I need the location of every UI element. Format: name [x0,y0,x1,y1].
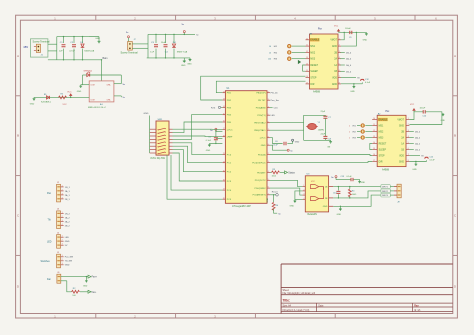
svg-text:Pan_SW: Pan_SW [65,257,73,259]
svg-text:PB7(XTAL2: PB7(XTAL2 [254,122,266,125]
svg-text:2: 2 [268,91,269,93]
svg-text:Screw Terminal: Screw Terminal [121,52,138,55]
svg-text:RESET: RESET [379,143,387,145]
svg-text:PC3(O5/Pwm: PC3(O5/Pwm [252,162,266,164]
svg-text:2A: 2A [334,58,337,61]
svg-text:SM4T22A: SM4T22A [84,50,94,53]
svg-text:C: C [17,214,19,218]
svg-text:28: 28 [223,198,225,200]
svg-text:Title:: Title: [283,298,291,302]
svg-text:7: 7 [408,154,409,156]
svg-text:16: 16 [373,154,375,156]
svg-text:DRV2: DRV2 [382,191,389,193]
svg-text:3: 3 [62,263,63,265]
svg-text:1B: 1B [401,149,404,151]
svg-text:DRV1: DRV1 [382,187,389,189]
svg-text:LED: LED [271,115,276,117]
svg-text:MS3: MS3 [379,137,384,139]
svg-text:15: 15 [306,70,308,72]
svg-text:2: 2 [268,153,269,155]
svg-text:PB0(ICP): PB0(ICP) [256,93,266,95]
svg-text:ENABLE: ENABLE [310,39,320,42]
svg-text:1B_4: 1B_4 [346,71,352,73]
svg-text:PD1(2L/TX: PD1(2L/TX [255,180,266,182]
svg-text:MS3: MS3 [310,59,315,61]
svg-text:11: 11 [306,45,308,47]
svg-text:MS2: MS2 [379,131,384,133]
svg-text:1: 1 [62,212,63,214]
svg-text:COM: COM [90,99,95,101]
svg-text:GND: GND [65,265,70,267]
svg-text:2A_4: 2A_4 [346,58,352,61]
svg-text:4: 4 [339,57,340,59]
svg-text:1uF: 1uF [150,52,154,54]
svg-text:12: 12 [306,51,308,53]
svg-text:3: 3 [62,220,63,222]
svg-text:Pan: Pan [47,193,52,195]
svg-text:A: A [17,54,19,58]
svg-text:3: 3 [62,244,63,246]
svg-text:17: 17 [306,82,308,84]
svg-text:J5: J5 [269,52,271,54]
svg-text:aVCC: aVCC [260,138,266,140]
svg-text:13: 13 [373,136,375,138]
svg-text:2B: 2B [334,52,337,54]
svg-text:16: 16 [306,76,308,78]
svg-text:PD4(2A: PD4(2A [258,153,266,156]
svg-text:D: D [454,285,456,289]
svg-text:MS1: MS1 [379,125,384,127]
svg-text:GND: GND [399,161,404,163]
svg-text:10: 10 [373,118,375,120]
svg-text:COM: COM [90,84,95,86]
svg-text:25: 25 [223,170,225,172]
svg-text:GND: GND [30,104,35,106]
svg-text:GND: GND [181,65,186,67]
svg-text:6: 6 [408,148,409,150]
svg-text:C14: C14 [333,192,336,194]
svg-text:0.1uF: 0.1uF [273,145,279,147]
svg-text:2: 2 [339,45,340,47]
svg-text:SLEEP: SLEEP [310,71,318,73]
svg-text:15: 15 [373,148,375,150]
svg-text:Sheet:: Sheet: [283,289,290,292]
svg-text:100uF: 100uF [345,28,351,30]
svg-text:1A_2: 1A_2 [65,216,71,219]
svg-text:D: D [17,285,19,289]
svg-text:0.1uF: 0.1uF [206,140,212,142]
svg-text:2: 2 [62,216,63,218]
svg-text:2B_2: 2B_2 [65,225,71,227]
svg-text:A: A [454,54,456,58]
svg-text:18: 18 [223,135,225,137]
svg-text:3: 3 [339,51,340,53]
svg-text:GND: GND [206,150,211,152]
svg-text:VCC: VCC [311,181,316,183]
svg-text:0.1uF: 0.1uF [365,82,371,84]
svg-text:24: 24 [223,161,225,163]
svg-text:PD5(T1): PD5(T1) [257,115,266,117]
svg-text:C: C [454,214,456,218]
svg-text:3: 3 [408,130,409,132]
svg-text:Screw Terminal: Screw Terminal [33,41,50,44]
svg-text:GND: GND [261,145,266,147]
svg-text:1: 1 [349,137,350,139]
svg-text:1: 1 [349,125,350,127]
svg-text:1: 1 [62,185,63,187]
svg-text:22pF: 22pF [321,111,326,113]
svg-text:2B: 2B [401,131,404,133]
svg-text:23: 23 [223,153,225,155]
svg-text:GND: GND [399,125,404,127]
svg-text:GND: GND [83,285,88,287]
svg-text:SM6T7.0A: SM6T7.0A [177,51,188,54]
svg-text:2B_1: 2B_1 [65,199,71,201]
svg-text:1B_2: 1B_2 [415,150,421,152]
svg-text:8: 8 [408,160,409,162]
svg-text:GND: GND [323,206,328,208]
svg-text:LED: LED [47,241,52,243]
svg-text:6: 6 [268,187,269,189]
svg-text:K205BW-L: K205BW-L [41,102,52,104]
svg-text:1N_2: 1N_2 [65,213,71,215]
svg-text:GND: GND [361,182,366,184]
svg-text:VDD: VDD [399,155,404,157]
svg-text:GND: GND [144,113,149,115]
svg-text:RESET: RESET [310,65,318,67]
svg-text:Size: A4: Size: A4 [283,304,292,307]
svg-text:16: 16 [223,121,225,123]
svg-text:15V: 15V [23,45,28,49]
svg-text:5v: 5v [290,151,292,153]
svg-text:1N_1: 1N_1 [65,187,71,189]
svg-text:PD3(INT: PD3(INT [257,172,266,174]
svg-text:B: B [454,134,456,138]
svg-text:GND: GND [363,40,368,42]
svg-text:6: 6 [339,70,340,72]
svg-text:8-Pin Dip SW: 8-Pin Dip SW [151,157,166,160]
svg-text:4: 4 [62,197,63,199]
svg-text:aVCC: aVCC [227,129,233,131]
svg-text:2A_2: 2A_2 [65,220,71,223]
svg-text:GND: GND [337,214,342,216]
svg-text:Phl_Dn: Phl_Dn [271,93,279,95]
svg-text:7: 7 [339,76,340,78]
svg-text:22pF: 22pF [321,133,326,135]
svg-text:GND: GND [187,63,192,65]
svg-text:12: 12 [373,130,375,132]
svg-text:Status: Status [288,172,295,175]
svg-text:6: 6 [268,121,269,123]
svg-text:A4988: A4988 [382,169,390,172]
svg-text:GND: GND [412,169,417,171]
svg-text:27: 27 [223,189,225,191]
svg-text:9: 9 [268,144,269,146]
svg-text:0.1uF: 0.1uF [347,176,353,178]
svg-text:C9: C9 [349,37,351,39]
svg-text:PB TST: PB TST [258,100,266,102]
svg-text:8: 8 [339,82,340,84]
svg-text:Fan-: Fan- [92,292,97,294]
svg-text:17: 17 [223,128,225,130]
svg-text:3: 3 [268,161,269,163]
svg-text:File: Movingright_v10.kicad_sc: File: Movingright_v10.kicad_sch [283,292,316,295]
svg-text:GND: GND [441,120,446,122]
svg-text:GND: GND [267,197,269,202]
svg-text:STEP: STEP [310,78,316,80]
svg-text:1: 1 [408,118,409,120]
svg-text:5: 5 [268,179,269,181]
svg-text:7: 7 [268,129,269,131]
svg-text:1A: 1A [334,64,337,67]
svg-text:GND: GND [332,84,337,86]
svg-text:4: 4 [268,106,269,108]
svg-text:1B: 1B [334,71,337,73]
svg-text:1uF: 1uF [59,51,63,53]
svg-text:1A_1: 1A_1 [65,190,71,193]
svg-text:A4988: A4988 [313,91,321,94]
svg-text:1A_4: 1A_4 [346,64,352,67]
svg-text:8: 8 [268,136,269,138]
svg-text:1: 1 [62,236,63,238]
svg-text:1A_2: 1A_2 [415,143,421,146]
svg-text:GND: GND [65,241,70,243]
svg-text:1A: 1A [401,142,404,145]
svg-text:3: 3 [62,193,63,195]
svg-text:R.St: R.St [211,107,216,110]
svg-text:GND: GND [332,46,337,48]
svg-text:4: 4 [62,224,63,226]
svg-text:11: 11 [373,124,375,126]
svg-text:3: 3 [268,99,269,101]
svg-text:PB6(XTAL1: PB6(XTAL1 [254,129,266,132]
svg-text:26: 26 [223,180,225,182]
svg-text:ENABLE: ENABLE [379,118,389,121]
svg-text:12: 12 [223,91,225,93]
svg-text:5: 5 [339,64,340,66]
svg-text:16MHz: 16MHz [318,130,324,132]
svg-text:GND: GND [290,205,295,207]
svg-text:SLEEP: SLEEP [379,149,387,151]
svg-text:14: 14 [223,106,225,108]
svg-text:MRD-05V0C-SL-C: MRD-05V0C-SL-C [88,107,107,109]
svg-text:PD0(26/RX: PD0(26/RX [255,188,267,190]
svg-text:13: 13 [223,99,225,101]
svg-text:Tilt_SW: Tilt_SW [65,260,72,263]
svg-text:15: 15 [223,113,225,115]
svg-text:5: 5 [268,114,269,116]
svg-text:STEP: STEP [379,155,385,157]
svg-text:Tilt: Tilt [48,219,51,222]
svg-text:100uF: 100uF [420,108,426,110]
svg-text:13: 13 [306,57,308,59]
svg-text:VCC: VCC [410,104,415,106]
svg-text:MS2: MS2 [310,52,315,54]
svg-text:1: 1 [349,131,350,133]
svg-text:7: 7 [268,193,269,195]
svg-text:SW1: SW1 [158,119,164,121]
svg-text:2A_1: 2A_1 [65,194,71,197]
svg-text:PD6(AIN0: PD6(AIN0 [256,107,267,110]
svg-text:2: 2 [408,124,409,126]
svg-text:VMOT: VMOT [330,40,337,42]
svg-text:2: 2 [62,259,63,261]
svg-text:Batn: Batn [103,57,109,60]
svg-text:Switches: Switches [41,260,51,263]
svg-text:DIR: DIR [310,84,314,86]
svg-text:5v: 5v [123,97,125,99]
svg-text:GND: GND [95,38,100,40]
svg-text:LED: LED [65,237,70,239]
svg-text:Pan_Sw: Pan_Sw [271,100,280,102]
svg-text:GND: GND [350,91,355,93]
svg-text:2: 2 [62,189,63,191]
svg-text:DRV3: DRV3 [382,195,389,197]
svg-text:2B_4: 2B_4 [346,52,352,54]
svg-text:14: 14 [373,142,375,144]
svg-text:Id: 1/1: Id: 1/1 [414,310,421,312]
svg-text:VMOT: VMOT [397,119,404,121]
svg-text:VCC: VCC [67,92,72,94]
svg-text:17: 17 [373,160,375,162]
svg-text:4: 4 [268,171,269,173]
svg-text:J10: J10 [268,59,271,61]
svg-text:VCC: VCC [334,26,339,28]
svg-text:2: 2 [62,240,63,242]
svg-text:14: 14 [306,64,308,66]
svg-text:aREF: aREF [227,137,233,139]
svg-text:5: 5 [408,142,409,144]
svg-text:Reset: Reset [272,190,278,193]
svg-text:DIR: DIR [379,161,383,163]
svg-text:1: 1 [62,255,63,257]
svg-text:VDD: VDD [332,78,337,80]
svg-text:Relais4N: Relais4N [308,214,318,216]
svg-text:2A_2: 2A_2 [415,137,421,140]
svg-text:PC6(RESET): PC6(RESET) [253,195,266,197]
svg-text:2A: 2A [401,136,404,139]
svg-text:4.7uF: 4.7uF [69,51,75,53]
svg-text:1: 1 [339,38,340,40]
svg-text:4: 4 [408,136,409,138]
svg-text:10uF: 10uF [161,42,167,44]
svg-text:0.1uF: 0.1uF [430,160,436,162]
svg-text:MS1: MS1 [310,46,315,48]
svg-text:KiCad E.D.A. kicad (7.0.0): KiCad E.D.A. kicad (7.0.0) [283,309,310,312]
svg-text:B: B [17,134,19,138]
svg-text:Fan+: Fan+ [92,277,98,279]
svg-text:2B_2: 2B_2 [415,132,421,134]
svg-text:VCC: VCC [63,104,68,106]
svg-text:J4: J4 [269,46,271,48]
svg-text:10: 10 [306,38,308,40]
svg-text:ATmega48V-10P: ATmega48V-10P [232,205,251,208]
svg-text:Date:: Date: [318,304,324,307]
svg-text:Rev:: Rev: [414,305,419,307]
svg-text:GND: GND [77,91,82,93]
svg-text:GND: GND [295,142,300,144]
